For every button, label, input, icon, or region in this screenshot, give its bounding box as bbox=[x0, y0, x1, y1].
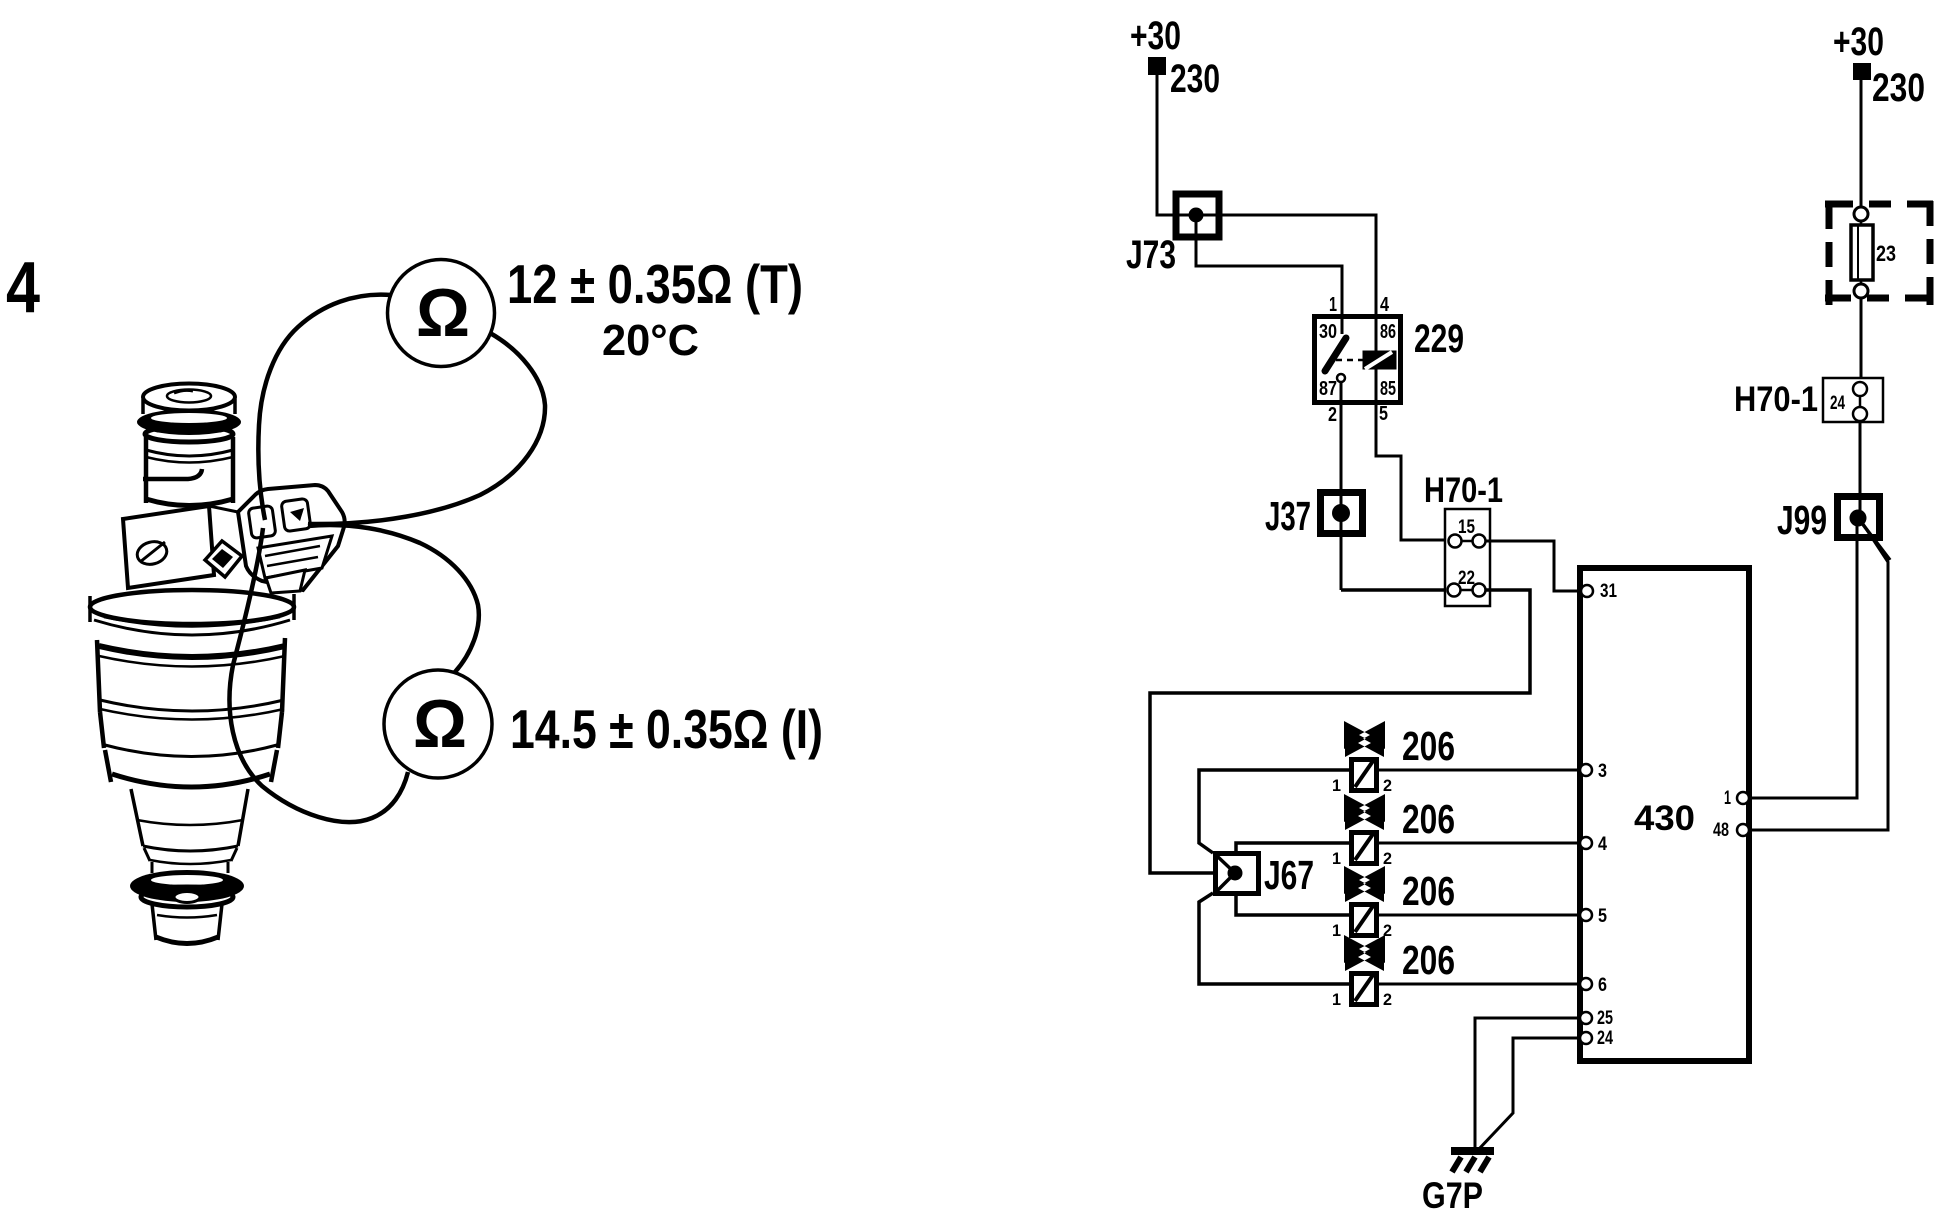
svg-text:229: 229 bbox=[1414, 317, 1464, 361]
svg-text:1: 1 bbox=[1724, 788, 1731, 809]
svg-text:H70-1: H70-1 bbox=[1734, 380, 1818, 419]
junction J99 bbox=[1838, 497, 1880, 538]
svg-text:48: 48 bbox=[1713, 820, 1729, 841]
svg-text:J73: J73 bbox=[1126, 233, 1176, 277]
ECU pin 5 bbox=[1580, 909, 1592, 921]
fuse 23 element bbox=[1860, 221, 1863, 284]
injector pictorial: main barrel bbox=[97, 638, 285, 712]
wire +30 to J73 bbox=[1157, 75, 1376, 316]
relay 229 pivot contact circle bbox=[1337, 374, 1345, 382]
svg-text:85: 85 bbox=[1380, 378, 1396, 400]
wire relay pin5 to H70-1 pin15 bbox=[1376, 368, 1450, 540]
svg-text:2: 2 bbox=[1383, 776, 1392, 795]
svg-text:1: 1 bbox=[1332, 776, 1341, 795]
svg-text:1: 1 bbox=[1332, 921, 1341, 940]
injector 206 #3 valve bowties bbox=[1344, 866, 1385, 894]
relay 229 pin1 internal stub bbox=[1341, 319, 1344, 334]
wire H70-1 pin15 to ECU pin31 bbox=[1486, 541, 1581, 591]
injector 206 #2 coil bbox=[1352, 833, 1377, 864]
ECU pin 25 bbox=[1580, 1012, 1592, 1024]
wire ECU pin24 to ground bbox=[1478, 1038, 1580, 1150]
svg-text:206: 206 bbox=[1402, 868, 1455, 914]
relay 229 box bbox=[1315, 317, 1401, 403]
connector H70-1 (left) box bbox=[1445, 509, 1490, 606]
wire relay pin2 to J37 bbox=[1340, 382, 1343, 590]
svg-text:4: 4 bbox=[6, 248, 40, 328]
injector 206 #4 coil bbox=[1352, 974, 1377, 1005]
test lead D: connector to lower ohmmeter top bbox=[308, 525, 479, 672]
test lead A: upper ohmmeter left to connector bbox=[258, 295, 391, 520]
ECU pin 4 bbox=[1580, 837, 1592, 849]
svg-text:230: 230 bbox=[1170, 57, 1220, 101]
ECU 430 box bbox=[1580, 568, 1749, 1061]
svg-text:14.5 ± 0.35Ω (I): 14.5 ± 0.35Ω (I) bbox=[510, 698, 823, 760]
injector pictorial: lower o-ring bbox=[130, 870, 244, 902]
svg-text:430: 430 bbox=[1634, 799, 1695, 838]
wire J37 to H70-1 pin22 bbox=[1341, 588, 1450, 592]
ECU pin 6 bbox=[1580, 978, 1592, 990]
wire ECU pin48 to J99 diagonal bbox=[1749, 521, 1888, 830]
svg-text:87: 87 bbox=[1319, 378, 1337, 400]
svg-text:230: 230 bbox=[1872, 66, 1925, 110]
wire injector 206 #1 pin2 to ECU bbox=[1378, 769, 1582, 772]
ECU pin 3 bbox=[1580, 764, 1592, 776]
injector pictorial: upper o-ring bbox=[137, 409, 241, 435]
wire J67 to injector 2 pin1 bbox=[1236, 843, 1349, 854]
fuse 23 bottom contact bbox=[1854, 284, 1868, 298]
svg-text:J67: J67 bbox=[1264, 852, 1314, 898]
injector pictorial: upper barrel bbox=[146, 437, 233, 503]
svg-text:206: 206 bbox=[1402, 796, 1455, 842]
ground G7P hatch strokes bbox=[1452, 1157, 1461, 1172]
svg-text:4: 4 bbox=[1598, 834, 1607, 855]
svg-text:1: 1 bbox=[1332, 849, 1341, 868]
wire H70-1 to J99 bbox=[1859, 421, 1862, 518]
INJECTOR-GROUP (rows) inserted here bbox=[1199, 721, 1582, 1009]
relay 229 dashed actuation line bbox=[1336, 359, 1364, 362]
svg-text:206: 206 bbox=[1402, 723, 1455, 769]
svg-text:31: 31 bbox=[1600, 581, 1617, 602]
injector pictorial: connector housing bbox=[238, 485, 345, 590]
svg-text:20°C: 20°C bbox=[602, 316, 699, 365]
injector pictorial: shoulder block bbox=[123, 506, 214, 588]
relay 229 pin4 internal stub bbox=[1375, 319, 1378, 352]
svg-text:2: 2 bbox=[1328, 404, 1337, 426]
svg-text:1: 1 bbox=[1329, 294, 1337, 316]
svg-text:25: 25 bbox=[1597, 1008, 1613, 1029]
svg-text:6: 6 bbox=[1598, 975, 1607, 996]
injector 206 #1 valve bowties bbox=[1344, 721, 1385, 749]
injector pictorial: top cap bbox=[143, 384, 235, 411]
wire J67 to injector 3 pin1 bbox=[1236, 894, 1349, 915]
injector 206 #1 coil bbox=[1352, 760, 1377, 791]
node +30 terminal square (left branch) bbox=[1148, 57, 1166, 75]
svg-text:22: 22 bbox=[1458, 568, 1475, 589]
J99 diagonal stub bbox=[1858, 518, 1890, 560]
injector pictorial: nozzle tip bbox=[152, 904, 222, 940]
injector 206 #3 coil bbox=[1352, 905, 1377, 936]
ECU pin 1 bbox=[1737, 792, 1749, 804]
svg-text:G7P: G7P bbox=[1422, 1175, 1483, 1216]
junction J73 bbox=[1176, 194, 1219, 237]
svg-text:2: 2 bbox=[1383, 849, 1392, 868]
wire ECU pin1 to J99 bbox=[1749, 520, 1857, 798]
junction J67 box bbox=[1216, 854, 1259, 894]
wire bus J67 to injector 4 pin1 bbox=[1199, 893, 1349, 984]
injector 206 #2 valve bowties bbox=[1344, 794, 1385, 822]
H70-1 pin 22 contacts bbox=[1454, 589, 1479, 592]
ground G7P symbol bar bbox=[1451, 1147, 1494, 1155]
node +30 terminal square (right branch) bbox=[1853, 63, 1871, 80]
H70-1 pin 15 contacts bbox=[1455, 540, 1479, 543]
ohmmeter 2 circle bbox=[384, 670, 492, 778]
relay 229 coil bbox=[1363, 351, 1397, 370]
svg-text:30: 30 bbox=[1319, 321, 1337, 343]
wire injector 206 #3 pin2 to ECU bbox=[1378, 914, 1582, 917]
svg-text:Ω: Ω bbox=[413, 686, 467, 762]
injector 206 #4 valve bowties bbox=[1344, 935, 1385, 963]
svg-text:24: 24 bbox=[1597, 1028, 1613, 1049]
svg-text:3: 3 bbox=[1598, 761, 1607, 782]
injector pictorial: diamond detail bbox=[209, 506, 238, 512]
svg-text:12 ± 0.35Ω (T): 12 ± 0.35Ω (T) bbox=[507, 253, 803, 315]
H70-1 pin 24 contacts bbox=[1859, 382, 1862, 421]
junction J37 bbox=[1321, 493, 1363, 534]
ECU pin 48 bbox=[1737, 824, 1749, 836]
ECU pin 31 bbox=[1581, 585, 1593, 597]
svg-text:15: 15 bbox=[1458, 517, 1475, 538]
svg-text:5: 5 bbox=[1598, 906, 1607, 927]
svg-text:4: 4 bbox=[1380, 294, 1390, 316]
wire injector 206 #2 pin2 to ECU bbox=[1378, 842, 1582, 845]
connector H70-1 (right) box bbox=[1823, 378, 1883, 422]
fuse 23 top contact bbox=[1854, 207, 1868, 221]
svg-text:1: 1 bbox=[1332, 990, 1341, 1009]
svg-text:J99: J99 bbox=[1777, 497, 1827, 543]
svg-text:+30: +30 bbox=[1833, 20, 1884, 64]
ECU pin 24 bbox=[1580, 1032, 1592, 1044]
wire ECU pin25 to ground bbox=[1475, 1018, 1580, 1148]
svg-text:+30: +30 bbox=[1130, 14, 1181, 58]
injector pictorial: flange bbox=[90, 590, 294, 624]
svg-text:Ω: Ω bbox=[416, 275, 470, 351]
wire H70-1 pin22 to injector bus and J67 bbox=[1150, 590, 1530, 873]
svg-text:206: 206 bbox=[1402, 937, 1455, 983]
svg-text:5: 5 bbox=[1379, 403, 1388, 425]
svg-text:24: 24 bbox=[1830, 393, 1845, 414]
svg-text:2: 2 bbox=[1383, 990, 1392, 1009]
test lead B: upper ohmmeter bottom to connector bbox=[308, 333, 545, 524]
relay 229 switch arm bbox=[1325, 338, 1346, 371]
ohmmeter 1 circle bbox=[388, 260, 495, 367]
wire fuse to H70-1 pin24 bbox=[1860, 298, 1863, 380]
injector pictorial: taper bbox=[131, 789, 248, 846]
svg-text:23: 23 bbox=[1876, 241, 1896, 266]
fuse 23 dashed holder box bbox=[1825, 201, 1933, 305]
svg-text:86: 86 bbox=[1380, 321, 1396, 343]
wire +30 to fuse 23 bbox=[1860, 80, 1863, 207]
wire bus J67 to injector 1 pin1 bbox=[1199, 770, 1349, 853]
svg-text:J37: J37 bbox=[1265, 493, 1311, 539]
injector pictorial: connector lower flap bbox=[258, 536, 332, 578]
wire J73 to relay pin1 bbox=[1196, 215, 1342, 316]
wire injector 206 #4 pin2 to ECU bbox=[1378, 983, 1582, 986]
svg-text:H70-1: H70-1 bbox=[1424, 471, 1503, 510]
test lead C: connector to lower ohmmeter (long sweep) bbox=[230, 528, 408, 822]
